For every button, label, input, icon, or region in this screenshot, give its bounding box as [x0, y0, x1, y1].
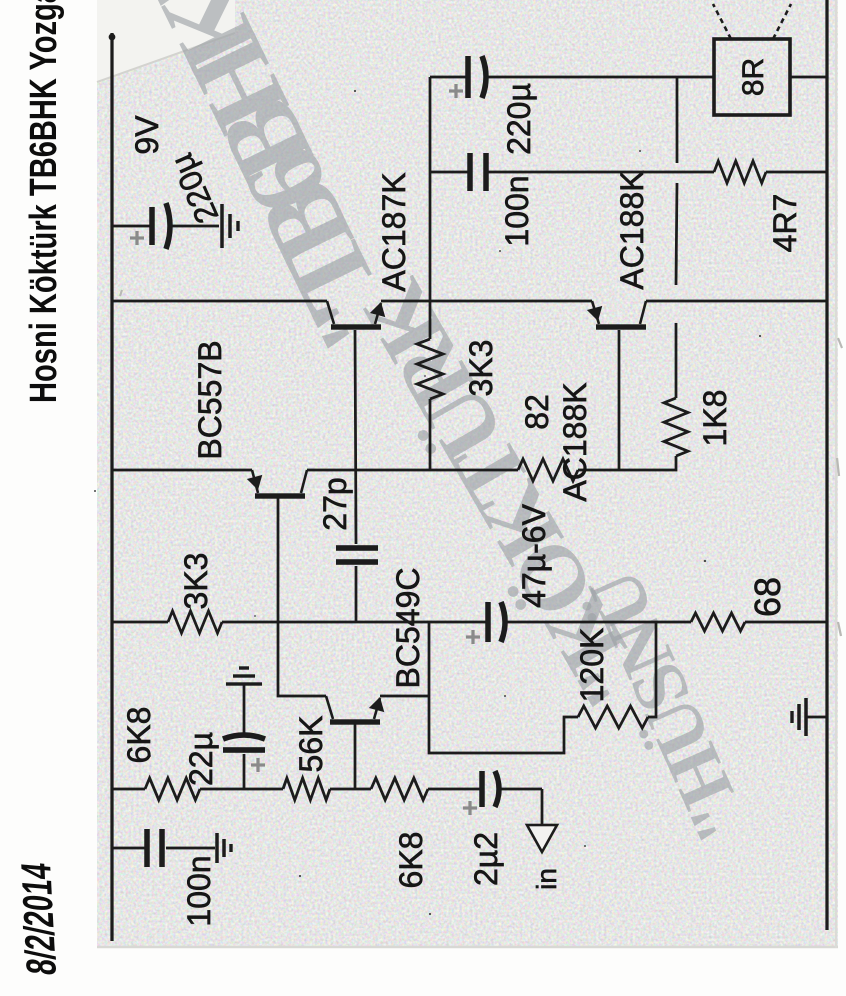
wire 220µ supply cap lead from 9V rail	[112, 225, 150, 228]
transistor Q3 AC187K	[331, 324, 381, 329]
capacitor 22µ decoupling	[223, 747, 265, 753]
wire 1K8 line to speaker node	[676, 77, 679, 163]
wire to input terminal	[541, 789, 544, 824]
svg-text:22µ: 22µ	[183, 732, 219, 786]
speaker terminal dashes	[713, 4, 731, 39]
speaker LS1 8R	[714, 39, 790, 115]
wire BC557B collector segment	[307, 469, 518, 472]
wire AC187K collector to 9V rail	[112, 300, 327, 303]
resistor 4R7 zobel	[714, 161, 766, 183]
wire BC557B emitter to 9V rail	[112, 469, 252, 472]
wire AC187K emitter to output node	[381, 300, 592, 303]
wire BC549C collector to BC557B base node	[278, 496, 326, 696]
capacitor 100n input filter	[144, 829, 150, 867]
wire bias chain upper lead	[112, 788, 145, 791]
wire speaker to ground rail	[790, 76, 827, 79]
capacitor 100n zobel	[467, 153, 473, 191]
svg-text:9V: 9V	[129, 115, 165, 155]
transistor Q4 AC188K	[596, 324, 646, 329]
svg-text:100n: 100n	[181, 855, 217, 926]
wire BC549C base lead	[354, 724, 357, 789]
wire 0V ground rail (bottom)	[825, 0, 828, 930]
wire BC549C emitter down	[380, 695, 430, 698]
wire AC188K collector to ground rail	[646, 300, 827, 303]
resistor 6K8 (upper bias)	[145, 778, 200, 800]
capacitor 220µ output coupling	[465, 56, 471, 98]
wire zobel upper lead	[430, 171, 468, 174]
wire divider middle segment	[222, 621, 487, 624]
resistor 1K8	[664, 398, 688, 456]
scan pepper specks	[94, 90, 761, 915]
svg-text:BC549C: BC549C	[390, 568, 426, 689]
resistor 6K8 (lower bias)	[371, 778, 428, 800]
wire 4R7 to ground rail	[766, 171, 827, 174]
capacitor 27p	[336, 559, 378, 565]
polarity + of 47µ	[466, 630, 480, 644]
resistor 3K3 (divider)	[168, 611, 222, 633]
svg-text:Hosni Köktürk TB6BHK Yozga: Hosni Köktürk TB6BHK Yozga	[23, 0, 65, 403]
svg-text:AC188K: AC188K	[557, 382, 593, 501]
wire main divider upper lead	[112, 621, 168, 624]
svg-text:3K3: 3K3	[463, 340, 499, 397]
wire output node to speaker line	[429, 77, 432, 339]
svg-text:68: 68	[747, 577, 788, 617]
svg-text:56K: 56K	[293, 716, 329, 773]
wire 9V supply rail (top)	[110, 33, 113, 941]
input terminal arrow	[527, 825, 557, 852]
wire 27p to AC187K base	[355, 330, 356, 544]
wire bias chain between 6K8 and 56K	[200, 788, 283, 791]
polarity + of supply 220µ	[130, 231, 144, 245]
svg-text:BC557B: BC557B	[192, 340, 228, 459]
wire output node left segment	[429, 399, 432, 470]
polarity + of 22µ	[251, 758, 265, 772]
polarity + of output 220µ	[449, 84, 463, 98]
wire 120K to bias/feedback node	[648, 623, 656, 717]
wire 68 to ground rail	[745, 621, 827, 624]
svg-text:47µ-6V: 47µ-6V	[516, 503, 552, 607]
resistor 68 (feedback to ground)	[691, 613, 745, 631]
paper edge shading	[97, 946, 838, 949]
wire below 82 to 1K8 corner	[578, 456, 676, 470]
wire bias chain between 56K and 6K8	[330, 788, 371, 791]
svg-text:in: in	[531, 868, 562, 890]
wire feedback loop to 120K	[429, 622, 578, 753]
wire 1K8 line segment (crossing output line, no connect)	[675, 323, 678, 398]
svg-text:220µ: 220µ	[501, 83, 537, 155]
capacitor 220µ supply decoupling	[149, 207, 155, 245]
resistor 120K feedback	[578, 706, 648, 728]
svg-text:1K8: 1K8	[697, 390, 733, 447]
svg-text:4R7: 4R7	[767, 194, 803, 253]
svg-text:100n: 100n	[499, 175, 535, 246]
ground symbol at input 100n	[215, 833, 218, 863]
svg-text:AC187K: AC187K	[376, 172, 412, 291]
wire 1K8 line segment (crossing zobel line, no connect)	[676, 183, 677, 285]
polarity + of 2µ2	[463, 801, 477, 815]
wire 100n filter lead from 9V rail	[112, 847, 145, 850]
transistor Q2 BC557B	[255, 493, 305, 498]
wire AC188K base lead	[618, 330, 621, 470]
capacitor 2µ2 input coupling	[479, 771, 485, 807]
ground symbol at 22µ (pointing right)	[226, 682, 262, 685]
wire bias chain to 2µ2	[428, 788, 480, 791]
ground symbol on 0V rail (pointing up)	[807, 716, 827, 719]
resistor 82 (bias between bases)	[518, 459, 578, 481]
svg-text:8R: 8R	[737, 58, 770, 96]
wire divider lower segment	[505, 621, 691, 624]
svg-text:8/2/2014: 8/2/2014	[12, 860, 65, 976]
svg-text:27p: 27p	[317, 477, 353, 530]
paper corner fold (white) with crease line	[97, 0, 235, 82]
wire 27p branch left segment	[355, 566, 358, 622]
transistor Q1 BC549C	[330, 719, 380, 724]
svg-text:120K: 120K	[574, 628, 610, 703]
svg-text:3K3: 3K3	[178, 553, 214, 610]
ground symbol at supply 220µ	[220, 204, 223, 248]
node 22µ branch junction	[243, 754, 246, 789]
svg-text:AC188K: AC188K	[614, 170, 650, 289]
stray scanner marks near edge	[120, 290, 842, 636]
svg-text:2µ2: 2µ2	[468, 832, 504, 886]
svg-text:6K8: 6K8	[121, 707, 157, 764]
svg-text:6K8: 6K8	[393, 832, 429, 889]
resistor 3K3 (bootstrap)	[417, 339, 443, 399]
wire output to 220µ coupling	[430, 76, 466, 79]
svg-text:82: 82	[519, 394, 555, 430]
resistor 56K (bias)	[283, 778, 330, 800]
capacitor 47µ-6V feedback	[485, 602, 491, 642]
wire 220µ to speaker	[486, 76, 714, 79]
wire zobel middle segment	[488, 171, 714, 174]
